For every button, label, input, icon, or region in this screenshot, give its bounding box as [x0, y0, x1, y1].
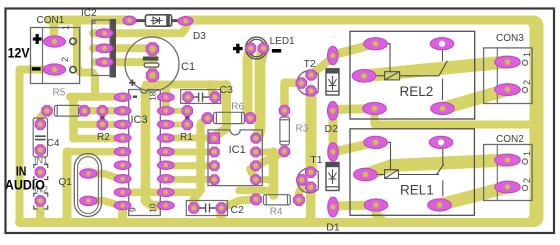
CON1 pad1: [44, 36, 66, 47]
wire IC3 pin13 to IC1 pin3: [170, 162, 210, 169]
REL2 pad coil-plus: [364, 38, 388, 50]
CON3 pin2 circle: [522, 87, 527, 92]
wire REL2 NO pad diag to CON3 pad2: [443, 90, 508, 109]
wire T2 emitter chain to T1 collector: [306, 90, 317, 172]
svg-text:R6: R6: [231, 102, 244, 113]
wire R1 bottom stub: [174, 122, 183, 128]
C4 pad top: [35, 119, 45, 129]
CON1 pad2: [44, 64, 66, 75]
wire IC3 pin15 to IC1 pin1: [167, 135, 212, 142]
R5 pad left: [42, 106, 52, 116]
R2 pad top: [97, 106, 107, 116]
svg-text:2: 2: [522, 178, 532, 183]
connector CON2 outline: [484, 145, 532, 201]
IC1 pin1 pad: [209, 133, 219, 143]
diode D3 left lead: [135, 19, 146, 22]
C2 pad left: [189, 203, 199, 213]
wire H1 drop to IC3 pin18/17: [162, 85, 170, 111]
wire right ring: [518, 16, 544, 228]
IC3 pin14 pad: [157, 147, 174, 156]
transistor T1 outline: [297, 168, 318, 193]
IC3 pin8 pad: [114, 188, 131, 197]
CON1 plus mark: [33, 37, 42, 40]
IC1 pin3 pad: [209, 161, 219, 171]
wire bottom band: [20, 218, 523, 227]
wire C2 right to bottom band: [217, 208, 226, 218]
REL1 pad NC: [429, 136, 453, 148]
svg-text:D2: D2: [325, 123, 339, 135]
wire IC3 pin8/11 row: [125, 188, 196, 196]
IC3 pin13 pad: [157, 161, 174, 170]
wire D2 bottom to REL2 pad: [333, 109, 375, 110]
IC2 pin1 marker circle: [92, 21, 95, 24]
relay REL1 outline: [350, 129, 474, 216]
IC1 pin6 pad: [251, 161, 261, 171]
wire Q1 top pad to IC3 pin7: [88, 174, 120, 179]
svg-text:R1: R1: [180, 132, 193, 143]
IC1 outline: [208, 130, 262, 186]
CON2 pin1 circle: [522, 159, 527, 164]
C4 symbol: [35, 136, 46, 139]
D1 pad bottom: [328, 197, 339, 217]
diode D2 symbol: [329, 76, 337, 90]
diode D2 body: [326, 69, 339, 95]
svg-text:Q1: Q1: [59, 177, 73, 188]
svg-text:IN1: IN1: [34, 156, 48, 166]
wire D2 top pad diag to REL2 coil pad: [333, 44, 376, 55]
connector CON3 outline: [484, 48, 532, 104]
IC3 pin9 pad: [114, 201, 131, 210]
T2 pad emitter: [306, 86, 316, 96]
wire R3 bottom diag to IC1 pin5: [250, 151, 284, 179]
pad IN1 frame: [34, 165, 48, 180]
REL1 pad common: [364, 199, 388, 211]
svg-text:CON1: CON1: [37, 15, 65, 26]
svg-text:T2: T2: [304, 58, 316, 70]
REL2 switch symbol: [439, 50, 447, 100]
wire IC2 pin row3 band: [95, 58, 143, 66]
wire REL1 pad curve to bottom band: [376, 205, 395, 223]
wire T2 base to R3 top corner: [285, 83, 302, 111]
wire IC3 pin12 to IC1 pin4: [170, 176, 210, 183]
svg-text:1: 1: [522, 52, 532, 57]
svg-text:C3: C3: [220, 84, 234, 96]
svg-text:C2: C2: [231, 204, 245, 216]
resistor R3 body: [280, 117, 290, 145]
wire IC1 pin7 stub: [256, 149, 272, 156]
IC1 pin4 pad: [209, 175, 219, 185]
diode D1 bottom cap line: [326, 186, 339, 188]
CON3 pad1: [495, 56, 521, 68]
IC3 pin5 pad: [114, 147, 131, 156]
C2 pad right: [216, 203, 226, 213]
svg-text:LED1: LED1: [270, 36, 295, 47]
wire C1 minus pad drop: [148, 76, 157, 85]
resistor R6 body: [214, 112, 245, 123]
IC3 pin15 pad: [157, 134, 174, 143]
IN2 pad: [35, 196, 45, 206]
IC3 outline: [129, 90, 161, 216]
wire LED anode vertical to R6 right: [248, 48, 251, 118]
wire left vertical beta: [69, 97, 78, 139]
wire T1 base to R4 right pad: [299, 179, 302, 200]
svg-text:IC1: IC1: [229, 144, 246, 156]
diode D2 cathode band: [326, 69, 339, 74]
svg-text:D1: D1: [326, 222, 340, 234]
C1 pad minus: [146, 69, 158, 81]
IC1 pin7 pad: [251, 147, 261, 157]
R6 pad left: [202, 113, 213, 124]
IC3 pin1 pad: [114, 93, 131, 102]
svg-text:C4: C4: [47, 138, 60, 149]
wire Q1 bottom pad to IC3 pin9: [88, 201, 122, 206]
wire top +12V band left of D3: [49, 16, 130, 25]
svg-text:1: 1: [61, 25, 71, 30]
wire beta to IC3 pin4: [74, 135, 115, 143]
diode D1 symbol: [329, 170, 337, 185]
diode D3 symbol: [151, 17, 164, 24]
R4 pad right: [294, 195, 305, 206]
IC1 pin5 pad: [251, 175, 261, 185]
CON2 pad1: [495, 154, 521, 166]
CON1 minus mark: [32, 67, 41, 70]
R1 pad top: [182, 106, 192, 116]
wire CON1 pad1 to top band: [50, 20, 59, 42]
LED1 inner ring: [248, 39, 265, 56]
wire R5 chain to IC3 pin2: [85, 107, 117, 115]
R1 pad bottom: [182, 119, 192, 129]
IC3 pin17 pad: [157, 107, 174, 116]
wire IC3 pin9 to bottom band: [118, 205, 127, 218]
wire node A into IC3 pin1: [70, 93, 114, 101]
R2 pad bottom: [97, 119, 107, 129]
transistor T2 outline: [297, 71, 318, 96]
capacitor C4 body: [33, 118, 47, 157]
svg-text:C1: C1: [181, 61, 195, 73]
wire IC3 centre vertical: [146, 80, 161, 206]
REL2 pad NC: [430, 38, 454, 50]
wire top +12V band right of D3: [186, 16, 522, 25]
T1 pad emitter: [306, 182, 316, 192]
svg-text:D3: D3: [193, 31, 206, 42]
wire band under IC1: [239, 187, 272, 195]
IC2 pad3: [96, 58, 113, 67]
svg-text:T1: T1: [310, 154, 322, 166]
IC2 pad2: [96, 44, 113, 53]
C1 plus mark: [129, 82, 135, 84]
pad IN2 frame: [34, 193, 48, 209]
D2 pad bottom: [328, 102, 339, 121]
svg-text:AUDIO: AUDIO: [5, 177, 45, 192]
C3 pad left: [183, 92, 193, 102]
Q1 pad top: [80, 169, 97, 178]
resistor R2 body mark: [100, 116, 104, 120]
resistor R5 body: [54, 105, 81, 116]
IC3 pin2 pad: [114, 107, 131, 116]
resistor R4 body: [263, 195, 290, 205]
REL2 pad coil: [352, 70, 376, 83]
crystal Q1 outline: [74, 154, 101, 217]
REL1 pad coil-plus: [364, 136, 388, 148]
wire R6 left to C2 left pad: [194, 118, 208, 208]
wire IC1 pin5 stub: [256, 176, 272, 183]
IC3 pin7 pad: [114, 175, 131, 184]
T1 pad base: [297, 175, 307, 185]
wire R1 top stub: [174, 108, 183, 114]
REL1 pad coil: [354, 168, 378, 181]
Q1 pad bottom: [80, 196, 97, 205]
C2 symbol: [200, 203, 216, 212]
svg-text:CON3: CON3: [496, 33, 524, 44]
wire LED cathode vertical to IC1 pin8: [257, 48, 263, 138]
C1 pad plus: [146, 43, 158, 55]
svg-text:IC2: IC2: [81, 8, 97, 19]
wire H1 drop to C3 right pad: [211, 85, 213, 96]
svg-text:R2: R2: [97, 132, 110, 143]
wire IC3 pin5 band: [67, 148, 114, 156]
wire IC2 pin row2 to C1 plus pad: [93, 44, 150, 52]
wire D1 bottom to REL1 pad: [333, 205, 376, 206]
LED1 pad anode: [246, 43, 256, 53]
C1 polarity bar filled: [143, 57, 159, 61]
svg-text:CON2: CON2: [496, 134, 524, 145]
D3 pad anode: [123, 16, 136, 25]
IC2 outline: [92, 20, 110, 76]
IC3 pin11 pad: [157, 188, 174, 197]
svg-text:2: 2: [60, 57, 70, 62]
R3 pad top: [279, 105, 289, 115]
wire IC1 pin7-pin5 vertical: [269, 152, 279, 195]
wire REL1 coil pad diag to CON2 pad1: [365, 160, 507, 175]
diode D1 body: [326, 163, 339, 191]
diode D1 cathode band: [326, 163, 339, 168]
wire horizontal bus H1 under C1: [146, 81, 227, 89]
wire REL1 NO pad diag to CON2 pad2: [440, 187, 508, 205]
IC1 pin8 pad: [251, 133, 261, 143]
CON1 pin1 circle: [70, 38, 76, 44]
capacitor C3 body: [181, 90, 221, 104]
R5 pad right: [79, 106, 89, 116]
LED1 pad cathode: [258, 43, 268, 53]
capacitor C2 body: [186, 201, 227, 216]
svg-text:1: 1: [522, 151, 532, 156]
CON2 pin2 circle: [522, 185, 527, 190]
wire IC2 pin row1 to D3 right pad: [93, 21, 187, 33]
svg-text:10: 10: [148, 203, 158, 213]
T1 pad collector: [306, 167, 316, 177]
capacitor C1 circle: [125, 37, 179, 91]
IC3 pin4 pad: [114, 134, 131, 143]
R6 pad right: [245, 113, 256, 124]
wire IN2 pad to bottom band: [36, 201, 45, 218]
LED1 minus mark: [272, 49, 281, 53]
T2 pad collector: [306, 70, 316, 80]
D2 pad top: [328, 46, 339, 65]
IC3 pin6 pad: [114, 161, 131, 170]
wire T2 collector diag to D2 top pad: [311, 58, 332, 75]
svg-text:REL2: REL2: [400, 84, 434, 99]
D1 pad top: [328, 143, 339, 162]
wire vertical from top band with jog: [77, 20, 95, 93]
D3 pad cathode: [178, 17, 193, 26]
IC2 tab: [110, 19, 117, 78]
wire IC3 pin14 to IC1 pin2: [167, 149, 212, 156]
IC1 pin2 pad: [209, 147, 219, 157]
svg-text:R4: R4: [270, 207, 283, 218]
svg-text:2: 2: [522, 80, 532, 85]
C3 symbol: [193, 93, 210, 102]
REL1 coil symbol: [377, 142, 439, 178]
IN1 pad: [35, 167, 45, 177]
REL1 switch symbol: [437, 149, 445, 197]
svg-text:12V: 12V: [8, 44, 31, 60]
svg-text:R5: R5: [53, 88, 66, 99]
wire C2 right to R4 left: [221, 200, 254, 209]
LED1 plus mark: [233, 47, 243, 50]
IC3 pin18 pad: [157, 93, 174, 102]
svg-text:IC3: IC3: [131, 114, 148, 126]
R4 pad left: [251, 194, 262, 205]
LED1 outer ring: [246, 37, 268, 59]
IC3 pin12 pad: [157, 175, 174, 184]
IC3 pin10 pad: [157, 201, 174, 210]
CON2 pad2: [495, 181, 521, 193]
IC3 pin3 pad: [114, 120, 131, 129]
diode D2 bottom cap line: [326, 90, 339, 92]
IC3 pin16 pad: [157, 120, 174, 129]
REL1 pad NO: [428, 199, 452, 211]
wire R2 bottom to beta: [74, 121, 117, 128]
wire D2 bottom to D1 top vertical: [329, 111, 338, 153]
wire REL2 coil pad diag to CON3 pad1: [364, 62, 508, 76]
REL2 coil symbol: [376, 44, 439, 80]
R3 pad bottom: [279, 146, 289, 156]
svg-text:18: 18: [148, 91, 158, 101]
wire R5 left pad to C4 top: [40, 111, 47, 125]
T2 pad base: [296, 78, 306, 88]
CON3 pad2: [495, 84, 521, 96]
relay REL2 outline: [350, 31, 475, 119]
REL2 pad common: [363, 102, 387, 114]
wire T1 emitter to bottom band: [306, 187, 316, 218]
C3 pad right: [210, 92, 220, 102]
resistor R1 body mark: [185, 116, 189, 120]
wire long left vertical to bottom band: [63, 152, 72, 218]
wire C1 pads vertical link: [148, 49, 158, 76]
svg-text:REL1: REL1: [400, 183, 434, 198]
CON1 pin2 circle: [70, 67, 76, 73]
svg-text:R3: R3: [296, 124, 309, 135]
CON3 pin1 circle: [522, 60, 527, 65]
diode D3 right lead: [172, 19, 178, 22]
diode D3 cathode band: [166, 15, 170, 25]
IC2 pad1: [96, 29, 113, 38]
wire D1 top diag to REL1 coil pad: [333, 142, 376, 152]
wire REL2 pad down and right to ring: [375, 109, 531, 125]
C1 polarity bar open: [144, 63, 159, 67]
svg-text:IN: IN: [16, 164, 27, 178]
wire H1 drop to IC1 pin1: [214, 85, 226, 139]
C4 pad bottom: [35, 145, 45, 155]
REL2 pad NO: [431, 102, 455, 114]
wire left ring + CON1 pad2 branch: [20, 70, 54, 219]
connector CON1 outline: [31, 28, 80, 84]
diode D3 body: [145, 15, 171, 26]
